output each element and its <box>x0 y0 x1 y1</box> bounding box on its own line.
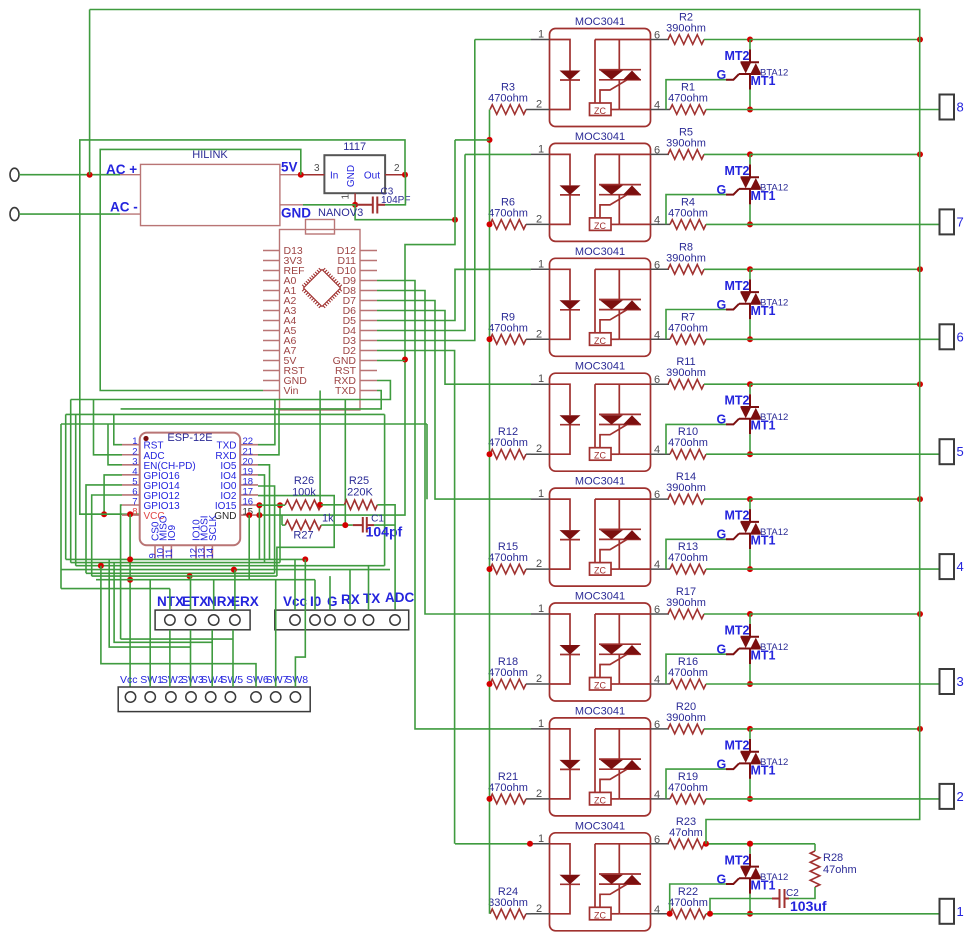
wire pin6 to MT2 node <box>704 843 750 845</box>
nano pin stubs <box>263 251 377 391</box>
svg-text:MOC3041: MOC3041 <box>575 246 625 258</box>
junction MT2 node <box>747 841 753 847</box>
wire R26 to R25 <box>321 504 344 506</box>
junction MT1 node <box>747 566 753 572</box>
svg-text:1: 1 <box>538 833 544 845</box>
svg-text:7: 7 <box>957 214 964 229</box>
wire D4 to channel 2 <box>377 154 465 330</box>
wire IO15 to R26 <box>258 504 285 506</box>
wire branch esp TXD <box>258 400 275 445</box>
U8 pin stubs and numbers <box>531 844 670 914</box>
junction L3 <box>98 563 104 569</box>
junction L4 <box>231 567 237 573</box>
resistor R4 <box>670 220 706 230</box>
resistor R7 <box>670 335 706 345</box>
connector SW header <box>118 687 310 712</box>
junction MT1 node <box>747 107 753 113</box>
svg-text:1: 1 <box>341 194 352 200</box>
svg-text:MOC3041: MOC3041 <box>575 591 625 603</box>
connector NTX ETX NRX ERX header <box>155 610 250 630</box>
junction MT1 node <box>747 681 753 687</box>
wire D6 to channel 4 <box>377 311 531 385</box>
U5 pin stubs and numbers <box>531 499 670 569</box>
junction VCC down <box>127 511 133 517</box>
wire bundle L3 <box>76 565 385 567</box>
svg-text:4: 4 <box>654 100 660 112</box>
svg-text:390ohm: 390ohm <box>666 23 706 35</box>
wire C3 to 3V3 <box>385 175 405 205</box>
svg-text:470ohm: 470ohm <box>668 93 708 105</box>
resistor R15 <box>490 564 526 574</box>
resistor R2 <box>668 35 704 45</box>
wire C2 to output <box>710 899 772 914</box>
wire MT2 node to AC bus <box>750 268 920 270</box>
junction ch8 MT2 node <box>747 841 753 847</box>
wire channel 3 input <box>455 268 531 270</box>
wire R25 to ADC pin <box>377 505 395 610</box>
svg-text:BTA12: BTA12 <box>760 182 788 193</box>
wire D3 to channel 1 <box>377 40 475 341</box>
wire R9 to pin2 <box>526 338 531 340</box>
opto-isolator U7 MOC3041 <box>550 718 651 816</box>
junction R left ch5 <box>487 566 493 572</box>
resistor R10 <box>670 449 706 459</box>
wire jog to SW6 <box>101 566 256 687</box>
wire R to MT1 <box>706 338 750 340</box>
wire GND down to esp <box>258 220 455 515</box>
wire gate to R <box>666 310 726 340</box>
wire channel 1 input <box>475 39 531 41</box>
svg-text:47ohm: 47ohm <box>669 827 703 839</box>
wire gate to R <box>666 654 726 684</box>
wire R to MT1 <box>706 913 750 915</box>
wire R15 to pin2 <box>526 568 531 570</box>
svg-text:330ohm: 330ohm <box>488 897 528 909</box>
junction AC bus <box>917 726 923 732</box>
svg-text:BTA12: BTA12 <box>760 642 788 653</box>
junction GND mid <box>452 217 458 223</box>
wire to SW8 <box>295 559 305 687</box>
wire MT2 stub <box>749 154 751 164</box>
junction R left ch7 <box>487 796 493 802</box>
junction R26 right <box>317 502 323 508</box>
microcontroller NANOV3 <box>280 230 361 411</box>
capacitor C3 <box>355 197 385 214</box>
wire nano GND <box>377 360 405 362</box>
wire esp IO5 down <box>258 465 270 560</box>
resistor R9 <box>490 335 526 345</box>
wire to SW1 <box>149 580 151 687</box>
wire R21 to pin2 <box>526 798 531 800</box>
svg-text:BTA12: BTA12 <box>760 297 788 308</box>
wire bundle L6 <box>92 575 277 577</box>
wire MT2 stub <box>749 384 751 394</box>
wire bundle L1 <box>66 558 306 560</box>
svg-text:BTA12: BTA12 <box>760 872 788 883</box>
svg-text:470ohm: 470ohm <box>668 782 708 794</box>
connector X1 <box>940 899 955 924</box>
svg-text:11: 11 <box>164 549 175 559</box>
wire jog to SW5 <box>121 638 233 640</box>
svg-text:TX: TX <box>363 591 380 606</box>
svg-text:MOC3041: MOC3041 <box>575 131 625 143</box>
wire R to MT1 <box>706 798 750 800</box>
resistor R13 <box>670 564 706 574</box>
wire D9 to channel 7 <box>377 281 531 729</box>
resistor R20 <box>668 724 704 734</box>
svg-text:47ohm: 47ohm <box>823 864 857 876</box>
junction MT2 node <box>747 611 753 617</box>
wire bundle L2 <box>71 562 280 564</box>
junction channel 8 pin1 <box>527 841 533 847</box>
wire R to MT1 <box>706 223 750 225</box>
svg-text:ZC: ZC <box>594 681 606 691</box>
wire MT2 node to AC bus <box>750 613 920 615</box>
wire MT1 to connector <box>750 338 940 340</box>
svg-text:4: 4 <box>654 789 660 801</box>
resistor R8 <box>668 265 704 275</box>
wire MT2 node to AC bus <box>750 39 920 41</box>
svg-text:MOC3041: MOC3041 <box>575 361 625 373</box>
wire pin6 to MT2 node <box>704 498 750 500</box>
wire R18 to pin2 <box>526 683 531 685</box>
triac T5 BTA12 <box>726 509 761 549</box>
wire NRX to SW4 <box>211 630 213 687</box>
svg-text:MT2: MT2 <box>725 624 750 638</box>
svg-text:2: 2 <box>394 163 400 174</box>
junction 5V <box>298 172 304 178</box>
svg-text:2: 2 <box>536 99 542 111</box>
junction esp GND a <box>246 512 252 518</box>
svg-text:ZC: ZC <box>594 336 606 346</box>
wire R to MT1 <box>706 109 750 111</box>
junction AC bus <box>917 266 923 272</box>
wire left v4 <box>75 414 77 565</box>
wire to R28 <box>814 844 816 851</box>
svg-text:Out: Out <box>364 171 380 182</box>
junction common top <box>487 137 493 143</box>
svg-text:MOC3041: MOC3041 <box>575 476 625 488</box>
svg-text:MT2: MT2 <box>725 853 750 867</box>
svg-text:SW5: SW5 <box>220 674 243 686</box>
svg-text:R28: R28 <box>823 852 843 864</box>
wire GND <box>303 204 355 206</box>
capacitor C2 <box>772 889 789 908</box>
wire EN wrap <box>108 424 122 465</box>
resistor R26 <box>285 500 321 510</box>
wire MT2 stub <box>749 844 751 854</box>
wire esp GND down <box>248 515 250 580</box>
svg-text:ZC: ZC <box>594 566 606 576</box>
wire bundle L8 <box>61 588 170 590</box>
svg-text:5: 5 <box>957 444 964 459</box>
svg-text:ZC: ZC <box>594 221 606 231</box>
connector X2 <box>940 784 955 809</box>
svg-text:4: 4 <box>654 674 660 686</box>
wire to RX pin <box>349 570 351 611</box>
svg-text:BTA12: BTA12 <box>760 757 788 768</box>
wire pin6 to MT2 node <box>704 613 750 615</box>
wire MT1 to connector <box>750 683 940 685</box>
svg-text:390ohm: 390ohm <box>666 137 706 149</box>
wire NTX to SW2 <box>169 630 171 687</box>
svg-text:6: 6 <box>654 259 660 271</box>
triac T6 BTA12 <box>726 624 761 664</box>
wire to Vcc pin <box>294 559 296 610</box>
wire C1 right <box>374 524 395 526</box>
wire D2 to channel 8 <box>377 351 455 844</box>
junction IO15 b <box>277 502 283 508</box>
wire H4 drop <box>384 414 386 565</box>
svg-text:BTA12: BTA12 <box>760 412 788 423</box>
opto-isolator U1 MOC3041 <box>550 29 651 127</box>
wire R to MT1 <box>706 683 750 685</box>
wire R6 to pin2 <box>526 223 531 225</box>
wire R to MT1 <box>706 568 750 570</box>
resistor R28 <box>810 851 820 887</box>
wire left v2 <box>65 414 67 559</box>
wire channel 8 input <box>455 843 531 845</box>
svg-text:6: 6 <box>654 30 660 42</box>
wire to NTX pin <box>169 589 171 611</box>
resistor R1 <box>670 105 706 115</box>
connector X6 <box>940 324 955 349</box>
capacitor C1 <box>353 517 374 533</box>
junction AC bus <box>917 611 923 617</box>
svg-text:HILINK: HILINK <box>192 149 228 161</box>
wire 5V rail to nano Vin <box>100 149 301 390</box>
resistor R25 <box>344 500 377 510</box>
connector AC input top <box>10 168 19 181</box>
wire MT1 stub <box>749 549 751 569</box>
triac T3 BTA12 <box>726 279 761 319</box>
connector X4 <box>940 554 955 579</box>
wire gate to R <box>666 195 726 225</box>
opto-isolator U8 MOC3041 <box>550 833 651 931</box>
svg-text:R27: R27 <box>293 530 313 542</box>
svg-text:4: 4 <box>654 444 660 456</box>
opto-isolator U4 MOC3041 <box>550 373 651 471</box>
svg-text:470ohm: 470ohm <box>488 552 528 564</box>
connector X8 <box>940 95 955 120</box>
wire MT2 stub <box>749 499 751 509</box>
wire branch esp ADC <box>94 400 123 455</box>
svg-text:AC -: AC - <box>110 200 138 215</box>
svg-text:R26: R26 <box>294 475 314 487</box>
svg-text:470ohm: 470ohm <box>668 552 708 564</box>
junction MT1 node <box>747 221 753 227</box>
triac T7 BTA12 <box>726 739 761 779</box>
svg-text:ESP-12E: ESP-12E <box>167 432 212 444</box>
junction L1 a <box>127 556 133 562</box>
svg-text:6: 6 <box>654 144 660 156</box>
svg-text:ZC: ZC <box>594 910 606 920</box>
svg-text:ETX: ETX <box>182 594 208 609</box>
svg-text:BTA12: BTA12 <box>760 527 788 538</box>
svg-text:3: 3 <box>314 163 320 174</box>
opto-isolator U2 MOC3041 <box>550 143 651 241</box>
wire D7 to channel 5 <box>377 301 531 500</box>
junction R left ch6 <box>487 681 493 687</box>
wire AC bus top and right <box>90 10 920 730</box>
wire MT2 node to AC bus <box>750 153 920 155</box>
wire to TX pin <box>368 566 370 610</box>
svg-text:8: 8 <box>132 507 137 518</box>
wire pin6 to MT2 node <box>704 383 750 385</box>
wire MT2 stub <box>749 614 751 624</box>
svg-text:MOC3041: MOC3041 <box>575 820 625 832</box>
svg-text:5V: 5V <box>281 160 298 175</box>
wire GPIO16 down <box>104 475 122 514</box>
junction 3V3 out <box>402 172 408 178</box>
svg-text:104pf: 104pf <box>366 524 403 540</box>
wire MT1 stub <box>749 319 751 339</box>
svg-text:MT2: MT2 <box>725 164 750 178</box>
svg-text:2: 2 <box>536 443 542 455</box>
junction L7 <box>127 577 133 583</box>
svg-text:1: 1 <box>957 904 964 919</box>
wire IO15 leg b <box>279 505 281 562</box>
svg-text:2: 2 <box>957 789 964 804</box>
connector serial header Vcc I0 G RX TX ADC <box>275 610 409 630</box>
wire R24 to pin2 <box>526 913 531 915</box>
wire R3 to pin2 <box>526 109 531 111</box>
wire MT2 stub <box>749 269 751 279</box>
wire to ETX pin <box>190 576 192 610</box>
svg-text:2: 2 <box>536 328 542 340</box>
svg-text:MT2: MT2 <box>725 738 750 752</box>
svg-text:1: 1 <box>538 29 544 41</box>
resistor R22 <box>670 909 706 919</box>
svg-text:390ohm: 390ohm <box>666 252 706 264</box>
resistor R24 <box>490 909 526 919</box>
wire ERX to SW5 <box>232 630 234 687</box>
svg-text:103uf: 103uf <box>790 898 827 914</box>
junction MT2 node <box>747 496 753 502</box>
junction L1 b <box>302 556 308 562</box>
svg-text:4: 4 <box>654 329 660 341</box>
wire MT1 to connector <box>750 109 940 111</box>
wire MT2 stub <box>749 40 751 50</box>
svg-text:6: 6 <box>654 719 660 731</box>
wire MT1 stub <box>749 779 751 799</box>
wire wrap H5 EN <box>61 423 427 425</box>
svg-text:4: 4 <box>654 559 660 571</box>
resistor R23 <box>668 839 704 849</box>
svg-text:14: 14 <box>205 548 216 559</box>
junction GND C3 <box>352 202 358 208</box>
svg-text:NANOV3: NANOV3 <box>318 207 363 219</box>
resistor R14 <box>668 494 704 504</box>
wire MT1 stub <box>749 90 751 110</box>
svg-text:1: 1 <box>538 603 544 615</box>
junction R left ch4 <box>487 451 493 457</box>
wire GPIO14 down <box>86 485 122 573</box>
U2 pin stubs and numbers <box>531 154 670 224</box>
wire to SW7 <box>275 580 277 687</box>
wire GPIO13 down <box>121 505 122 639</box>
junction MT1 node <box>747 336 753 342</box>
svg-text:6: 6 <box>654 374 660 386</box>
svg-text:MOC3041: MOC3041 <box>575 705 625 717</box>
junction MT1 node <box>747 911 753 917</box>
svg-text:MT2: MT2 <box>725 49 750 63</box>
wire esp IO4 down <box>258 475 265 563</box>
wire MT2 node to AC bus <box>750 728 920 730</box>
wire R12 to pin2 <box>526 453 531 455</box>
svg-text:470ohm: 470ohm <box>668 207 708 219</box>
U1 pin stubs and numbers <box>531 40 670 110</box>
svg-text:4: 4 <box>957 559 964 574</box>
junction C2 output <box>707 911 713 917</box>
module U2 ESP-12E <box>140 433 241 546</box>
svg-text:1: 1 <box>538 373 544 385</box>
wire jog to SW4 <box>114 563 212 643</box>
resistor R17 <box>668 609 704 619</box>
U6 pin stubs and numbers <box>531 614 670 684</box>
junction AC bus <box>917 381 923 387</box>
opto-isolator U6 MOC3041 <box>550 603 651 701</box>
svg-text:In: In <box>330 171 338 182</box>
svg-text:470ohm: 470ohm <box>488 322 528 334</box>
wire D8 to channel 6 <box>377 291 531 615</box>
svg-text:ADC: ADC <box>385 590 414 605</box>
wire left v1 <box>60 424 62 589</box>
svg-text:4: 4 <box>654 904 660 916</box>
connector X3 <box>940 669 955 694</box>
wire IO15 leg a <box>258 505 260 559</box>
wire H5 drop <box>426 424 428 499</box>
wire MT1 stub <box>749 664 751 684</box>
svg-text:Vin: Vin <box>284 385 299 397</box>
svg-text:MT2: MT2 <box>725 509 750 523</box>
junction MT1 node <box>747 796 753 802</box>
triac T8 BTA12 <box>726 854 761 894</box>
junction AC bus <box>917 37 923 43</box>
wire MT1 to connector <box>750 913 940 915</box>
junction MT1 node <box>747 451 753 457</box>
resistor R16 <box>670 679 706 689</box>
wire channel 2 input <box>465 153 531 155</box>
svg-text:220K: 220K <box>347 487 373 499</box>
wire bundle L7 <box>96 579 315 581</box>
wire MT1 to connector <box>750 453 940 455</box>
wire pin6 to MT2 node <box>704 728 750 730</box>
svg-text:390ohm: 390ohm <box>666 367 706 379</box>
svg-text:470ohm: 470ohm <box>668 897 708 909</box>
svg-text:1k: 1k <box>322 513 334 525</box>
svg-text:470ohm: 470ohm <box>668 322 708 334</box>
regulator U$1 1117 <box>324 155 385 193</box>
svg-text:AC +: AC + <box>106 162 137 177</box>
wire to ERX pin <box>234 570 236 611</box>
wire nano RXD line <box>71 381 391 400</box>
svg-text:470ohm: 470ohm <box>668 437 708 449</box>
junction IO15 a <box>256 502 262 508</box>
junction GPIO16 VCC <box>101 511 107 517</box>
wire 3V3 rail to ESP VCC <box>80 140 405 514</box>
wire MT1 stub <box>749 894 751 914</box>
resistor R6 <box>490 220 526 230</box>
wire to G pin <box>329 576 331 610</box>
svg-text:ZC: ZC <box>594 795 606 805</box>
svg-text:470ohm: 470ohm <box>488 93 528 105</box>
wire AC bus to channel 8 <box>706 729 920 844</box>
svg-text:2: 2 <box>536 673 542 685</box>
wire common link <box>455 139 490 141</box>
junction MT2 node <box>747 381 753 387</box>
resistor R18 <box>490 679 526 689</box>
